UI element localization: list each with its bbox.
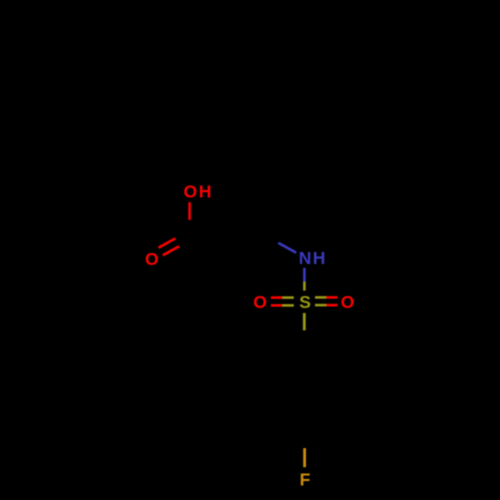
wire: benzene ring C6-C7 (black) bbox=[304, 404, 330, 419]
wire: S=O right, lower line: olive half then red half bbox=[315, 304, 326, 307]
wire: benzene ring C5-C6 (black) bbox=[329, 374, 332, 404]
wire: C7-F bond gold half bbox=[303, 449, 306, 468]
wire: benzene ring C8-C9 (black) bbox=[277, 374, 280, 404]
svg-text:S: S bbox=[299, 292, 311, 312]
svg-text:O: O bbox=[341, 292, 355, 312]
wire: C7-F bond black half bbox=[303, 419, 306, 449]
wire: C1=O double bond, upper line red half bbox=[159, 239, 176, 248]
svg-text:H: H bbox=[313, 248, 326, 268]
wire: O(H)-C1 bond lower black half bbox=[188, 220, 191, 238]
wire: S-C4 bond olive half bbox=[303, 313, 306, 330]
wire: N-S bond olive half bbox=[303, 282, 306, 291]
wire: benzene ring C4-C5 (black) bbox=[304, 359, 330, 374]
wire: benzene ring C9-C4 (black) bbox=[278, 359, 304, 374]
svg-text:O: O bbox=[145, 249, 159, 269]
svg-text:N: N bbox=[299, 248, 312, 268]
svg-text:O: O bbox=[184, 182, 198, 202]
label: hydroxyl O-H (red OH) bbox=[184, 182, 212, 202]
wire: S=O left, lower line: red half then olive half bbox=[271, 304, 283, 307]
svg-text:O: O bbox=[253, 292, 267, 312]
label: amide N-H (blue NH) bbox=[299, 248, 326, 268]
wire: C1=O double bond, lower line black half bbox=[179, 238, 195, 247]
wire: S=O right, upper line: olive half then red half bbox=[315, 296, 326, 299]
svg-text:F: F bbox=[300, 469, 311, 489]
wire: C3-N bond blue half bbox=[279, 243, 297, 253]
wire: O(H)-C1 bond upper red half bbox=[188, 202, 191, 220]
wire: C3-N bond black half bbox=[253, 229, 279, 244]
wire: N-S bond blue half bbox=[303, 268, 306, 282]
wire: C1-C2 chain bond (carbon, black) bbox=[190, 237, 222, 255]
wire: C1=O double bond, upper line black half bbox=[175, 229, 192, 238]
wire: C1=O double bond, lower line red half bbox=[163, 246, 179, 255]
wire: C2-C3 chain bond (carbon, black) bbox=[222, 229, 254, 256]
wire: benzene ring C7-C8 (black) bbox=[278, 404, 304, 419]
svg-text:H: H bbox=[199, 182, 212, 202]
wire: S=O left, upper line: red half then olive half bbox=[271, 296, 283, 299]
wire: S-C4 bond black half bbox=[303, 330, 306, 359]
